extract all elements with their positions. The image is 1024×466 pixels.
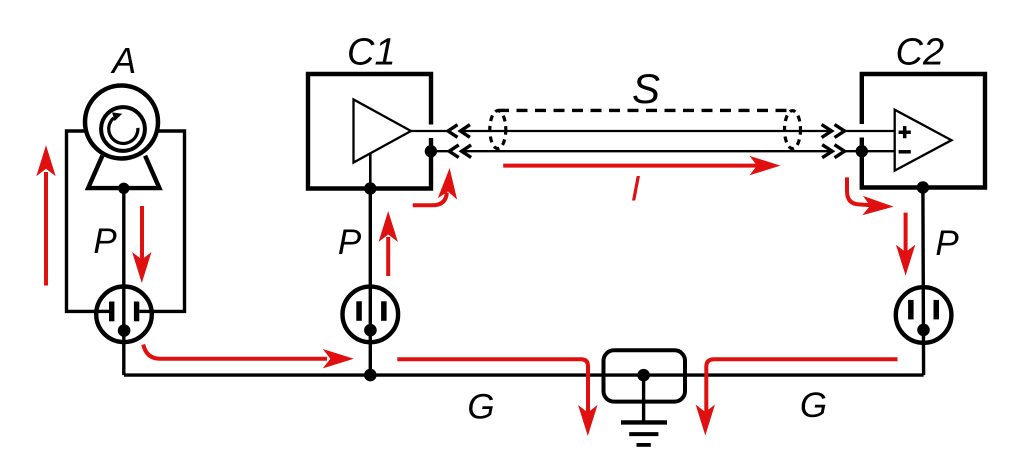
node: bus junction under C1	[364, 369, 377, 382]
connector chevrons at C2 lower	[822, 145, 844, 158]
outlet P1 circle (under A)	[96, 287, 152, 343]
component box C1	[308, 74, 431, 189]
connector chevrons at C2 upper	[822, 125, 845, 138]
op-amp plus input sign	[899, 126, 911, 138]
svg-text:P: P	[338, 223, 362, 262]
earth ground rounded box	[604, 350, 686, 401]
svg-text:C2: C2	[896, 32, 945, 74]
wire: earth stem	[642, 375, 645, 422]
ground symbol bar 2	[629, 432, 658, 436]
component box C2	[862, 74, 985, 188]
connector chevrons at C1 lower	[449, 145, 471, 158]
appliance A rotation arc	[109, 118, 138, 144]
red arrow: down inside A loop	[140, 206, 144, 261]
red arrow: shield current I	[503, 164, 757, 168]
outlet P2 circle (under C1)	[343, 287, 399, 343]
appliance A motor base (trapezoid)	[88, 156, 159, 188]
outlet P3 ground hole	[917, 324, 930, 337]
outlet P1 left slot	[109, 302, 114, 322]
connector chevrons at C1 upper	[448, 125, 470, 138]
node: earth junction	[637, 369, 650, 382]
cable shield S left dashed ellipse	[490, 111, 506, 149]
wire: ground bus G	[124, 373, 924, 376]
red arrow: bus down to earth (right)	[706, 359, 897, 414]
wire: A ground conductor down to bus	[122, 188, 125, 375]
outlet P1 right slot tick wire	[139, 310, 152, 313]
node: trapezoid ground junction	[118, 183, 129, 194]
wire: C1 triangle to chassis	[369, 153, 372, 188]
node: C1 chassis bottom junction	[364, 182, 376, 194]
outlet P3 circle (under C2)	[896, 287, 952, 343]
op-amp minus input sign	[899, 150, 911, 154]
outlet P1 left slot tick wire	[96, 310, 109, 313]
outlet P2 left slot	[356, 301, 362, 321]
outlet P2 right slot	[381, 301, 387, 321]
svg-text:S: S	[632, 65, 660, 112]
amplifier triangle in C1	[354, 100, 412, 163]
red arrow: up from P2 to C1	[386, 237, 390, 276]
outlet P1 ground hole	[118, 324, 131, 337]
node: C2 chassis bottom junction	[917, 181, 929, 193]
svg-text:G: G	[467, 388, 494, 427]
ground symbol bar 1	[621, 420, 667, 424]
red arrow: curl out of C2 shield	[847, 177, 872, 205]
outlet P3 right slot	[934, 300, 940, 320]
svg-text:I: I	[631, 170, 641, 209]
red arrow: down from C2 to P3	[904, 213, 908, 253]
svg-text:G: G	[800, 386, 827, 425]
op-amp U1 triangle in C2	[895, 110, 952, 171]
svg-text:P: P	[935, 224, 959, 263]
wire: C2 ground conductor down to bus	[921, 188, 925, 376]
red arrow: from outlet P1 along bus to right	[143, 345, 327, 359]
node: C1 shield connection junction	[425, 145, 437, 157]
wire: C1 ground conductor down to bus	[369, 189, 372, 376]
red arrow: curl up into C1 shield	[413, 193, 447, 206]
outlet P1 right slot	[134, 302, 139, 322]
wire: appliance A power-loop rectangle	[67, 131, 185, 311]
wire: signal return conductor lower	[431, 150, 895, 152]
cable shield S top dashed line	[498, 109, 794, 112]
appliance A motor inner circle	[101, 107, 145, 151]
svg-text:C1: C1	[347, 32, 396, 74]
svg-text:A: A	[110, 40, 136, 81]
wire: signal conductor upper	[411, 130, 895, 132]
red arrow: bus down to earth (left)	[397, 359, 588, 414]
outlet P3 left slot	[908, 300, 914, 320]
outlet P2 ground hole	[364, 324, 377, 337]
red arrow: left loop upward	[44, 172, 48, 286]
appliance A motor outer circle	[85, 86, 158, 159]
ground symbol bar 3	[637, 443, 651, 447]
node: C2 shield connection junction	[856, 145, 868, 157]
svg-text:P: P	[93, 222, 117, 261]
appliance A rotation arrowhead	[112, 112, 122, 121]
cable shield S right dashed ellipse	[785, 111, 801, 149]
